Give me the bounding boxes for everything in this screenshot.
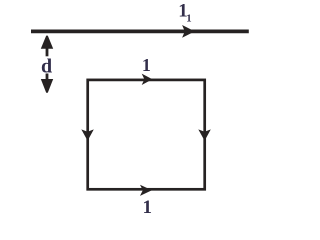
svg-text:1: 1	[186, 13, 191, 25]
current arrowhead on bottom side of loop (pointing right)	[140, 185, 152, 196]
dimension arrow d: upper arrow pointing up to wire	[41, 36, 53, 57]
svg-text:1: 1	[142, 55, 151, 75]
dimension arrow d: lower arrow pointing down	[41, 74, 53, 93]
current arrowhead on right side of loop (pointing down)	[198, 129, 211, 140]
current arrowhead on left side of loop (pointing down)	[81, 129, 94, 140]
current direction arrowhead on wire W1	[182, 25, 195, 38]
svg-text:1: 1	[143, 197, 153, 217]
wire W1 (long straight wire carrying current I1)	[31, 29, 249, 33]
square loop (current loop)	[88, 80, 205, 189]
current arrowhead on top side of loop (pointing right)	[142, 74, 153, 85]
label I1 (current in wire)	[178, 0, 192, 24]
